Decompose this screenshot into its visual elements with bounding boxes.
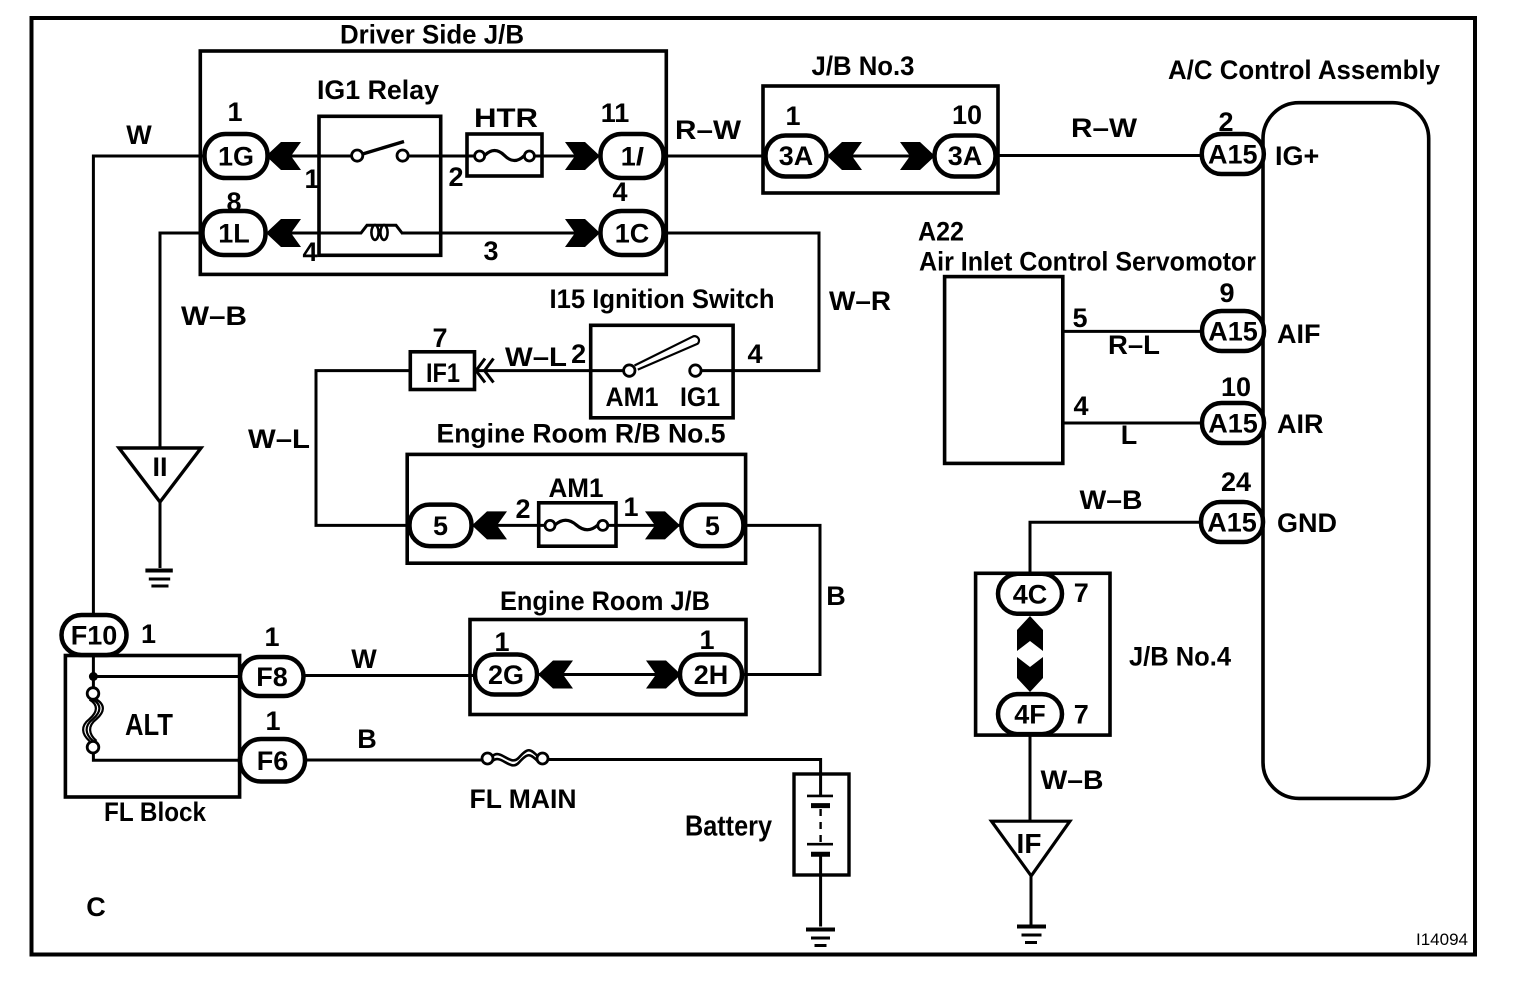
svg-text:FL MAIN: FL MAIN: [470, 784, 577, 814]
svg-text:Engine Room J/B: Engine Room J/B: [500, 586, 710, 616]
connector F6: [240, 739, 305, 782]
svg-text:4C: 4C: [1013, 579, 1048, 609]
ground below battery: [806, 930, 835, 946]
wire IF1 to ignition switch pin2, net W-L: [475, 369, 734, 372]
connector 4C: [998, 574, 1062, 614]
relay coil: [345, 225, 402, 240]
svg-text:B: B: [357, 724, 377, 754]
fuse HTR box: [467, 134, 542, 176]
svg-text:F8: F8: [256, 662, 288, 692]
wire servomotor pin5 to A15 AIF, net R-L: [1063, 330, 1203, 333]
connector 4F: [998, 694, 1062, 734]
connector 3A right: [935, 136, 996, 177]
svg-text:L: L: [1121, 420, 1138, 450]
connector F10: [62, 615, 127, 655]
svg-text:AM1: AM1: [606, 382, 659, 412]
svg-text:R–L: R–L: [1108, 330, 1160, 360]
svg-text:C: C: [86, 892, 106, 922]
fusible link FL MAIN: [482, 750, 548, 765]
chevrons at IF1: [476, 359, 494, 383]
relay switch contact: [352, 142, 409, 162]
connector A15 pin9: [1202, 311, 1264, 351]
wire 1C to ignition switch pin4, net W-R: [664, 233, 820, 371]
svg-text:2: 2: [571, 339, 586, 369]
svg-text:A22: A22: [918, 217, 964, 247]
wire IF triangle to ground: [1030, 876, 1033, 927]
wire II triangle to ground: [159, 502, 162, 568]
A/C Control Assembly body: [1263, 103, 1429, 799]
svg-text:W–B: W–B: [1041, 765, 1104, 795]
svg-text:W–R: W–R: [829, 286, 891, 316]
svg-text:9: 9: [1219, 278, 1234, 308]
arrow into 1G: [266, 142, 301, 170]
arrow into 2H: [646, 661, 681, 689]
FL Block box: [65, 656, 239, 798]
svg-text:IG+: IG+: [1275, 141, 1319, 171]
svg-text:GND: GND: [1277, 508, 1337, 538]
fuse IF1 box: [410, 352, 474, 390]
svg-text:1: 1: [227, 97, 242, 127]
ignition switch lever: [624, 336, 702, 376]
svg-text:8: 8: [226, 187, 241, 217]
svg-text:5: 5: [705, 511, 720, 541]
wire FL MAIN to battery: [547, 760, 821, 797]
svg-text:2H: 2H: [694, 660, 729, 690]
svg-text:4: 4: [747, 339, 762, 369]
ground triangle IF: [992, 821, 1070, 876]
svg-text:AIF: AIF: [1277, 319, 1321, 349]
svg-text:R–W: R–W: [675, 115, 742, 145]
connector 1I: [601, 134, 664, 178]
relay IG1 box: [319, 116, 441, 255]
ignition switch I15 box: [591, 325, 733, 418]
svg-text:4F: 4F: [1014, 700, 1046, 730]
svg-text:Air Inlet Control Servomotor: Air Inlet Control Servomotor: [919, 247, 1256, 277]
wire F6 to FL MAIN: [305, 759, 483, 762]
svg-text:W: W: [351, 644, 377, 674]
svg-text:J/B No.3: J/B No.3: [812, 51, 915, 81]
svg-text:IG1: IG1: [680, 382, 720, 412]
svg-text:1: 1: [699, 625, 714, 655]
connector F8: [240, 657, 304, 696]
svg-text:2: 2: [448, 162, 463, 192]
svg-text:2G: 2G: [488, 660, 524, 690]
connector A15 pin2: [1202, 134, 1264, 174]
svg-text:A/C Control Assembly: A/C Control Assembly: [1168, 55, 1440, 85]
svg-text:5: 5: [433, 511, 448, 541]
svg-text:7: 7: [1074, 700, 1089, 730]
ground symbol II: [145, 571, 172, 587]
svg-text:J/B No.4: J/B No.4: [1129, 641, 1231, 671]
wire IF1 left down to R/B No.5, net W-L: [316, 371, 410, 526]
arrow into 5 right: [645, 511, 680, 539]
svg-text:W–B: W–B: [181, 301, 247, 331]
arrow into 3A right: [900, 142, 935, 170]
svg-text:A15: A15: [1208, 317, 1258, 347]
wire battery to ground: [819, 854, 822, 926]
wire F10 stem to junction: [93, 655, 240, 677]
junction box J/B No.4: [976, 573, 1110, 735]
wire R/B No.5 to 2H row, net B: [742, 525, 820, 674]
svg-text:Battery: Battery: [685, 811, 772, 843]
svg-text:AM1: AM1: [549, 473, 604, 503]
connector 1L: [203, 211, 266, 255]
svg-text:IF1: IF1: [426, 358, 460, 388]
connector A15 pin10: [1202, 403, 1264, 443]
connector A15 pin24: [1201, 502, 1263, 542]
arrow into 1I: [565, 142, 600, 170]
svg-text:HTR: HTR: [474, 103, 538, 133]
svg-text:3A: 3A: [948, 141, 983, 171]
wire A15 GND to 4C, net W-B: [1030, 522, 1202, 573]
svg-text:1: 1: [141, 619, 156, 649]
connector 5 right: [681, 505, 743, 546]
svg-text:2: 2: [515, 494, 530, 524]
junction box Engine Room J/B: [470, 620, 746, 715]
svg-text:W–L: W–L: [248, 424, 310, 454]
svg-text:5: 5: [1072, 303, 1087, 333]
svg-text:1: 1: [494, 627, 509, 657]
svg-text:4: 4: [1073, 391, 1088, 421]
svg-text:2: 2: [1218, 107, 1233, 137]
connector 3A left: [766, 136, 827, 177]
svg-text:7: 7: [432, 323, 447, 353]
svg-text:AIR: AIR: [1277, 409, 1324, 439]
arrow into 2G: [538, 661, 573, 689]
wire inside R/B No.5 right: [608, 524, 682, 527]
wire inside R/B No.5 left: [472, 524, 546, 527]
relay block Engine Room R/B No.5 box: [407, 454, 745, 563]
connector 1G: [205, 134, 268, 178]
svg-text:4: 4: [612, 177, 627, 207]
connector 2H: [680, 655, 742, 695]
svg-text:24: 24: [1221, 467, 1251, 497]
svg-text:W: W: [126, 120, 152, 150]
svg-text:A15: A15: [1208, 140, 1258, 170]
svg-text:1: 1: [264, 622, 279, 652]
svg-text:Driver Side J/B: Driver Side J/B: [340, 20, 524, 50]
svg-text:11: 11: [601, 98, 630, 128]
svg-text:Engine Room R/B No.5: Engine Room R/B No.5: [437, 418, 726, 448]
svg-text:II: II: [152, 452, 167, 482]
svg-text:1: 1: [304, 164, 319, 194]
svg-text:1C: 1C: [615, 219, 650, 249]
svg-text:3A: 3A: [779, 141, 814, 171]
svg-text:B: B: [826, 581, 846, 611]
wire junction to fusible link: [92, 677, 95, 689]
svg-text:I15 Ignition Switch: I15 Ignition Switch: [550, 284, 775, 314]
svg-text:F10: F10: [71, 621, 118, 651]
svg-text:ALT: ALT: [125, 707, 173, 742]
svg-text:A15: A15: [1207, 508, 1257, 538]
wire relay pin2 to HTR: [408, 155, 475, 158]
servomotor A22 box: [945, 277, 1063, 464]
svg-text:7: 7: [1074, 578, 1089, 608]
wire servomotor pin4 to A15 AIR, net L: [1063, 422, 1203, 425]
arrow into 5 left: [472, 511, 507, 539]
connector 2G: [475, 655, 537, 695]
fuse AM1 element: [545, 520, 608, 530]
wire inside J/B No.3: [827, 155, 936, 158]
wire inside Engine Room J/B: [538, 673, 682, 676]
arrow into 1L: [266, 219, 301, 247]
wire 1L to relay pin4: [266, 232, 347, 235]
connector 5 left: [410, 505, 472, 546]
svg-text:W–L: W–L: [505, 342, 567, 372]
svg-text:1: 1: [785, 101, 800, 131]
wire 4F to ground IF, net W-B: [1029, 735, 1032, 822]
arrow up in J/B No.4: [1017, 616, 1043, 651]
junction box J/B No.3: [763, 86, 998, 193]
svg-text:1: 1: [265, 706, 280, 736]
svg-text:I14094: I14094: [1416, 930, 1468, 949]
junction node: [89, 672, 98, 681]
wire 1L to left vertical and ground II: [160, 233, 203, 448]
wire F8 to 2G, net W: [304, 674, 475, 677]
wire 1G to relay pin1: [266, 155, 352, 158]
svg-text:3: 3: [483, 236, 498, 266]
ground triangle II: [119, 448, 201, 502]
svg-text:1: 1: [623, 492, 638, 522]
wire W from 1G to F10: [93, 156, 204, 616]
svg-text:IG1 Relay: IG1 Relay: [317, 75, 439, 105]
wire fusible link to F6, net B: [93, 753, 240, 760]
svg-text:F6: F6: [257, 746, 289, 776]
wire HTR to 1I: [534, 155, 601, 158]
ground symbol IF: [1017, 927, 1046, 943]
svg-text:10: 10: [952, 100, 982, 130]
fuse HTR element: [475, 151, 535, 162]
arrow down in J/B No.4: [1017, 657, 1043, 692]
svg-text:IF: IF: [1017, 828, 1042, 859]
svg-text:A15: A15: [1208, 409, 1258, 439]
svg-text:W–B: W–B: [1080, 485, 1143, 515]
svg-text:4: 4: [302, 237, 317, 267]
svg-text:1I: 1I: [621, 142, 644, 172]
svg-text:R–W: R–W: [1071, 113, 1138, 143]
svg-text:1G: 1G: [218, 142, 254, 172]
junction box Driver Side J/B: [200, 51, 666, 274]
wire 1I to J/B No.3: [664, 155, 766, 158]
fusible link ALT: [83, 688, 103, 753]
arrow into 3A left: [827, 142, 862, 170]
battery: [794, 774, 849, 875]
svg-text:1L: 1L: [218, 219, 250, 249]
svg-text:10: 10: [1221, 372, 1251, 402]
wire 3A to A15 IG+: [996, 154, 1203, 157]
wire relay pin3 to 1C: [401, 232, 601, 235]
fuse AM1 box: [539, 503, 616, 546]
connector 1C: [601, 211, 664, 255]
arrow into 1C: [565, 219, 600, 247]
svg-text:FL Block: FL Block: [104, 797, 207, 827]
